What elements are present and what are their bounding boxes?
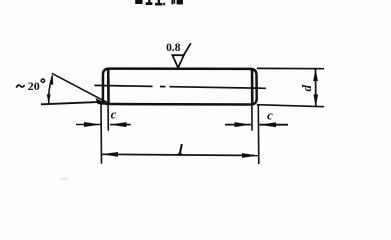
extension line left inner (chamfer, for c) bbox=[107, 105, 109, 131]
l dimension line with arrows bbox=[101, 152, 258, 158]
left c dimension line with arrows bbox=[76, 122, 131, 127]
d top extension line bbox=[257, 67, 324, 69]
right chamfer line bbox=[251, 68, 254, 105]
angle diagonal line bbox=[52, 73, 107, 102]
angle dimension arc bbox=[49, 75, 53, 103]
pin body outline (rounded rectangle) bbox=[103, 69, 257, 105]
extension line right inner (chamfer, for c) bbox=[251, 105, 253, 131]
faint scan smudge bbox=[60, 177, 69, 181]
svg-text:c: c bbox=[111, 106, 117, 121]
right c dimension line with arrows bbox=[225, 122, 288, 127]
clipped text fragment at top edge bbox=[135, 0, 183, 6]
svg-text:c: c bbox=[267, 108, 273, 123]
extension line right outer (for l and c) bbox=[257, 105, 260, 164]
center line (dash-dot axis) bbox=[95, 85, 267, 88]
surface roughness symbol (triangle with tail) bbox=[172, 55, 183, 68]
svg-text:20: 20 bbox=[28, 79, 40, 93]
d dimension line with arrows bbox=[313, 69, 318, 107]
l label bbox=[180, 144, 182, 154]
angle leader horizontal leg bbox=[41, 102, 107, 105]
svg-text:0.8: 0.8 bbox=[166, 42, 181, 54]
left chamfer line bbox=[107, 68, 110, 104]
extension line left outer (for l and c) bbox=[100, 103, 103, 164]
arc bottom arrowhead bbox=[47, 94, 51, 104]
diagonal end blob at chamfer corner bbox=[96, 98, 109, 105]
angle label ~20 degrees bbox=[16, 85, 24, 88]
svg-text:d: d bbox=[299, 85, 314, 92]
arc top arrowhead bbox=[50, 76, 54, 85]
d bottom extension line bbox=[257, 105, 324, 107]
